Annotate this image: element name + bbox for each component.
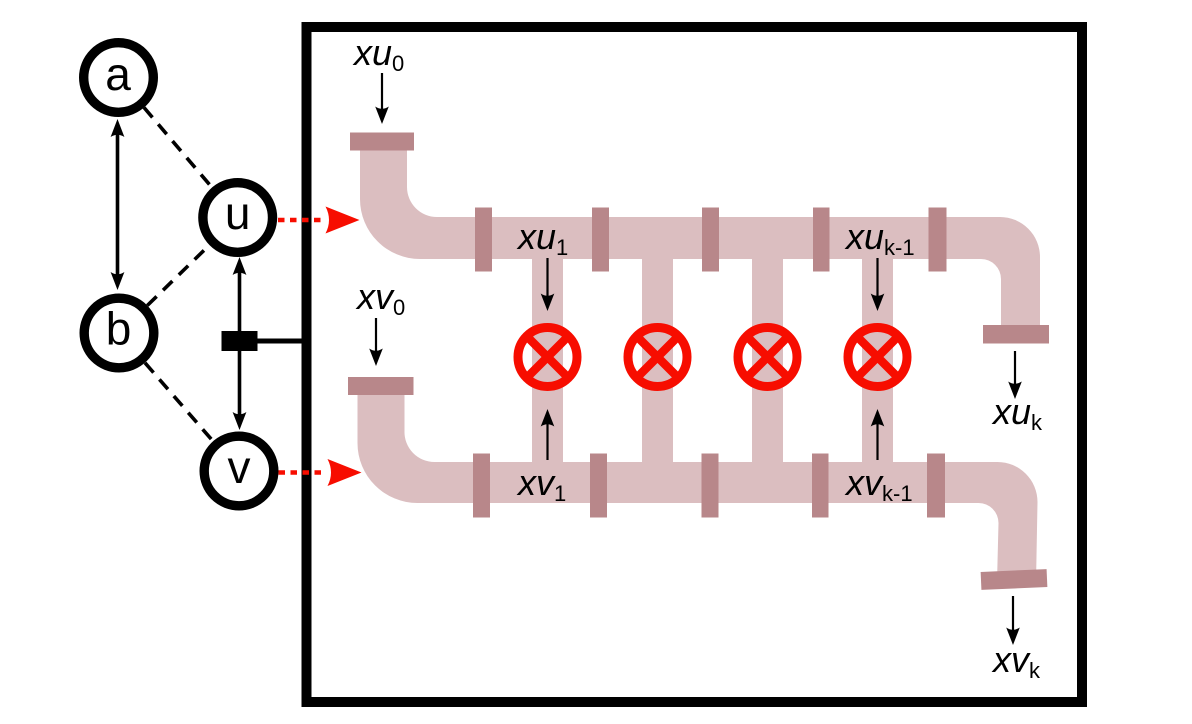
vertical connector pipe 3 — [752, 240, 783, 480]
node u — [203, 183, 273, 253]
svg-text:v: v — [228, 441, 251, 493]
couplings on bottom pipe — [473, 454, 945, 518]
wire from square to box — [257, 339, 303, 344]
vertical connector pipe 1 — [532, 240, 563, 480]
arrow xu0 to inlet — [375, 73, 389, 124]
flange top inlet — [350, 133, 414, 151]
svg-text:u: u — [225, 187, 251, 239]
valve 2 — [628, 328, 687, 387]
edge a-u dashed — [144, 108, 212, 188]
top pipe u assembly — [360, 150, 1040, 340]
flange bottom outlet — [981, 569, 1048, 590]
vertical connector pipe 2 — [642, 240, 673, 480]
red dotted arrow from v into box — [279, 459, 362, 486]
bottom pipe v assembly — [358, 395, 1038, 583]
edge u-v double arrow — [233, 257, 247, 430]
flange top outlet — [983, 325, 1049, 344]
edge a-b double arrow — [111, 119, 125, 290]
arrow out of bottom outlet to xv_k — [1006, 596, 1020, 645]
node a — [84, 43, 154, 113]
arrow xu1 into valve1 — [541, 258, 555, 311]
vertical connector pipe 4 — [862, 240, 893, 480]
node v — [204, 436, 274, 506]
svg-text:a: a — [105, 48, 131, 100]
svg-text:b: b — [106, 303, 132, 355]
valve 1 — [518, 328, 577, 387]
edge b-v dashed — [145, 363, 213, 441]
arrow xv1 into valve1 — [541, 409, 555, 460]
connector square on u-v edge — [222, 331, 258, 351]
arrow xu(k-1) into valve4 — [871, 258, 885, 311]
red dotted arrow from u into box — [278, 207, 360, 234]
valve 3 — [738, 328, 797, 387]
arrow out of top outlet to xu_k — [1008, 351, 1022, 399]
arrow xv0 to inlet — [369, 318, 383, 366]
edge b-u dashed — [147, 245, 209, 306]
gadget box border — [307, 27, 1083, 702]
flange bottom inlet — [348, 377, 414, 395]
valve 4 — [848, 328, 907, 387]
arrow xv(k-1) into valve4 — [871, 409, 885, 460]
node b — [84, 298, 154, 368]
couplings on top pipe — [475, 208, 947, 272]
